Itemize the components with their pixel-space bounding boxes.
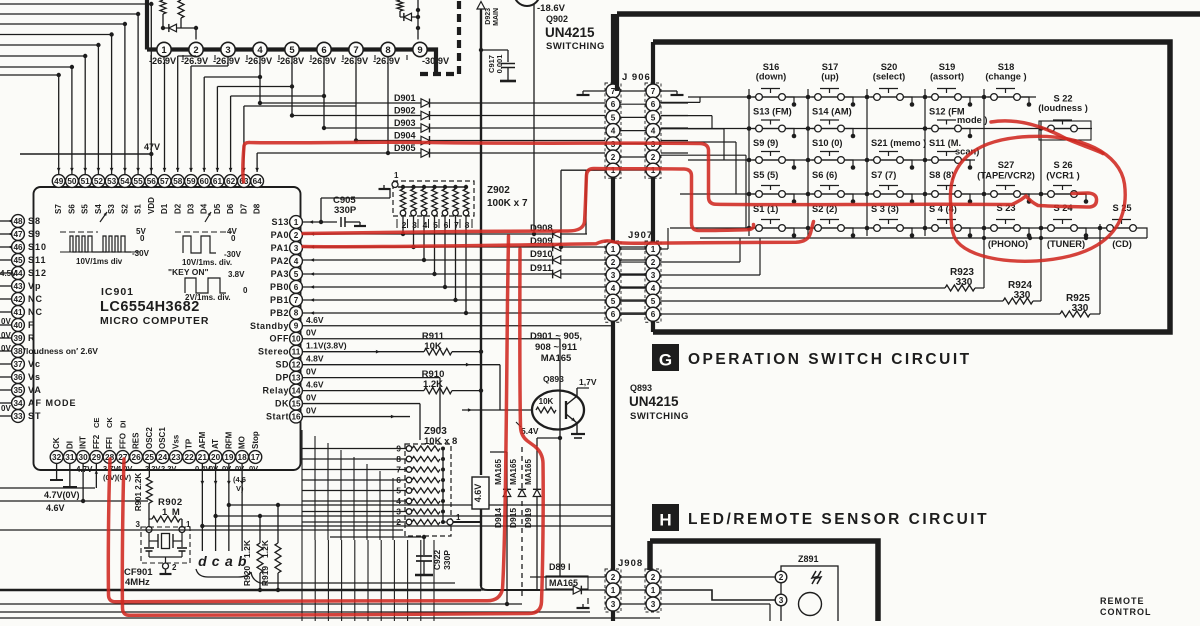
svg-text:S12: S12 — [28, 268, 47, 278]
svg-text:V): V) — [236, 484, 244, 493]
svg-text:6: 6 — [321, 45, 326, 56]
svg-text:MO: MO — [238, 436, 247, 449]
svg-text:1: 1 — [651, 245, 656, 254]
svg-text:36: 36 — [13, 373, 23, 382]
svg-text:D910: D910 — [530, 249, 553, 260]
svg-text:SD: SD — [275, 360, 289, 370]
svg-text:(down): (down) — [756, 72, 786, 82]
svg-text:J907: J907 — [628, 230, 653, 241]
svg-text:DP: DP — [275, 373, 289, 383]
svg-text:35: 35 — [13, 386, 23, 395]
svg-text:10V/1ms div: 10V/1ms div — [76, 257, 123, 266]
svg-text:C922: C922 — [432, 550, 442, 571]
svg-text:FFI: FFI — [105, 437, 114, 449]
svg-text:3: 3 — [651, 600, 656, 609]
svg-text:J 906: J 906 — [622, 72, 651, 83]
svg-text:6: 6 — [651, 100, 656, 109]
svg-text:19: 19 — [224, 453, 234, 462]
svg-text:9: 9 — [396, 444, 401, 454]
svg-text:-26.9V: -26.9V — [373, 56, 401, 66]
svg-text:S9: S9 — [28, 229, 41, 239]
svg-text:(TUNER): (TUNER) — [1047, 239, 1085, 249]
svg-text:10V/1ms. div.: 10V/1ms. div. — [182, 258, 232, 267]
svg-text:S5: S5 — [81, 204, 90, 214]
svg-text:5: 5 — [396, 486, 401, 496]
svg-text:0: 0 — [231, 234, 236, 243]
svg-text:10K x 8: 10K x 8 — [424, 436, 457, 447]
svg-text:-26.9V: -26.9V — [181, 56, 209, 66]
svg-text:1: 1 — [611, 245, 616, 254]
svg-text:-26.8V: -26.8V — [277, 56, 305, 66]
svg-text:D911: D911 — [530, 263, 553, 274]
svg-text:VDD: VDD — [147, 197, 156, 214]
svg-text:(TAPE/VCR2): (TAPE/VCR2) — [977, 171, 1035, 181]
svg-text:54: 54 — [120, 177, 130, 186]
svg-text:CONTROL: CONTROL — [1100, 607, 1152, 617]
svg-text:-26.9V: -26.9V — [341, 56, 369, 66]
svg-text:330: 330 — [1014, 290, 1031, 301]
svg-text:(VCR1 ): (VCR1 ) — [1046, 171, 1080, 181]
svg-text:0V: 0V — [249, 464, 258, 473]
svg-text:S1: S1 — [134, 204, 143, 214]
svg-text:Vp: Vp — [28, 281, 42, 291]
svg-text:2: 2 — [611, 153, 616, 162]
svg-text:17: 17 — [251, 453, 261, 462]
svg-text:0: 0 — [140, 234, 145, 243]
svg-text:4.6V: 4.6V — [473, 484, 483, 503]
svg-text:2.2V: 2.2V — [161, 464, 176, 473]
svg-text:1.2K: 1.2K — [260, 539, 270, 558]
svg-text:8: 8 — [396, 454, 401, 464]
svg-text:(up): (up) — [821, 72, 839, 82]
svg-text:OPERATION SWITCH CIRCUIT: OPERATION SWITCH CIRCUIT — [688, 351, 972, 368]
svg-text:S19: S19 — [939, 62, 956, 72]
svg-text:1: 1 — [394, 171, 399, 180]
svg-text:Standby: Standby — [250, 321, 289, 331]
svg-text:0: 0 — [243, 286, 248, 295]
svg-text:26: 26 — [132, 453, 142, 462]
svg-text:Z891: Z891 — [798, 554, 819, 564]
svg-text:(CD): (CD) — [1112, 239, 1132, 249]
svg-text:S27: S27 — [998, 160, 1015, 170]
svg-text:Vc: Vc — [28, 359, 41, 369]
svg-text:2: 2 — [172, 563, 177, 572]
svg-text:(select): (select) — [873, 72, 906, 82]
svg-text:42: 42 — [13, 295, 23, 304]
svg-text:S8: S8 — [28, 216, 41, 226]
svg-text:15: 15 — [291, 400, 301, 409]
svg-text:1: 1 — [611, 586, 616, 595]
svg-text:2.2V: 2.2V — [145, 464, 160, 473]
svg-text:S7 (7): S7 (7) — [871, 170, 896, 180]
svg-text:REMOTE: REMOTE — [1100, 596, 1145, 606]
svg-text:53: 53 — [107, 177, 117, 186]
svg-text:0V: 0V — [1, 317, 11, 326]
svg-text:52: 52 — [94, 177, 104, 186]
svg-text:S16: S16 — [763, 62, 780, 72]
svg-text:6: 6 — [651, 310, 656, 319]
svg-text:Vss: Vss — [171, 434, 180, 449]
svg-text:0V: 0V — [1, 344, 11, 353]
svg-text:S20: S20 — [881, 62, 898, 72]
svg-text:7: 7 — [294, 296, 299, 305]
svg-text:5: 5 — [289, 45, 295, 56]
svg-text:-26.9V: -26.9V — [213, 56, 241, 66]
svg-text:6: 6 — [611, 310, 616, 319]
svg-text:1 M: 1 M — [162, 507, 181, 518]
svg-text:D904: D904 — [394, 131, 416, 141]
svg-text:16: 16 — [291, 413, 301, 422]
svg-text:-18.6V: -18.6V — [537, 3, 566, 14]
svg-text:Q893: Q893 — [543, 374, 564, 384]
svg-text:0V: 0V — [209, 464, 218, 473]
svg-text:7: 7 — [651, 87, 656, 96]
svg-text:0V: 0V — [1, 404, 11, 413]
svg-text:Stop: Stop — [251, 431, 260, 449]
svg-text:13: 13 — [291, 374, 301, 383]
svg-text:G: G — [659, 351, 672, 370]
svg-text:S4: S4 — [94, 204, 103, 214]
svg-text:330: 330 — [1072, 303, 1089, 314]
svg-text:-30.9V: -30.9V — [422, 56, 450, 66]
svg-text:0.001: 0.001 — [495, 55, 504, 74]
svg-text:LC6554H3682: LC6554H3682 — [100, 299, 200, 315]
svg-text:(assort): (assort) — [930, 72, 964, 82]
svg-text:'loudness on′ 2.6V: 'loudness on′ 2.6V — [24, 346, 98, 356]
svg-text:18: 18 — [238, 453, 248, 462]
svg-text:D1: D1 — [160, 203, 169, 214]
svg-text:3: 3 — [136, 520, 141, 529]
svg-text:S 26: S 26 — [1053, 160, 1072, 170]
svg-text:RES: RES — [132, 432, 141, 449]
svg-text:S14 (AM): S14 (AM) — [812, 107, 852, 117]
svg-text:H: H — [659, 511, 671, 530]
svg-text:4.7V(0V): 4.7V(0V) — [44, 490, 80, 500]
svg-text:330: 330 — [956, 277, 973, 288]
svg-text:Q893: Q893 — [630, 383, 652, 393]
svg-text:RFM: RFM — [224, 431, 233, 449]
svg-text:4.6V: 4.6V — [306, 380, 324, 390]
svg-text:4.7V: 4.7V — [76, 465, 93, 474]
svg-text:D89 I: D89 I — [549, 562, 571, 572]
svg-text:43: 43 — [13, 282, 23, 291]
svg-text:S17: S17 — [822, 62, 839, 72]
svg-text:S5 (5): S5 (5) — [753, 170, 778, 180]
svg-text:51: 51 — [81, 177, 91, 186]
svg-text:4.6V: 4.6V — [46, 503, 65, 513]
svg-text:D901 ~ 905,: D901 ~ 905, — [530, 331, 582, 342]
svg-text:AT: AT — [211, 439, 220, 449]
svg-text:PA3: PA3 — [271, 269, 289, 279]
svg-text:62: 62 — [226, 177, 236, 186]
svg-text:0V: 0V — [235, 464, 244, 473]
svg-text:9: 9 — [294, 322, 299, 331]
svg-text:1: 1 — [161, 45, 167, 56]
svg-text:1.1V(3.8V): 1.1V(3.8V) — [306, 341, 347, 351]
svg-text:SWITCHING: SWITCHING — [630, 411, 689, 422]
svg-text:D5: D5 — [213, 203, 222, 214]
svg-text:2: 2 — [294, 231, 299, 240]
svg-text:40: 40 — [13, 321, 23, 330]
svg-text:D919: D919 — [523, 508, 533, 529]
svg-text:24: 24 — [158, 453, 168, 462]
svg-text:14: 14 — [291, 387, 301, 396]
svg-text:-26.9V: -26.9V — [309, 56, 337, 66]
svg-text:Stereo: Stereo — [258, 347, 289, 357]
svg-text:OFF: OFF — [270, 334, 290, 344]
svg-text:48: 48 — [13, 217, 23, 226]
svg-text:"KEY ON": "KEY ON" — [168, 267, 209, 277]
svg-text:-30V: -30V — [132, 249, 150, 258]
svg-text:2: 2 — [611, 573, 616, 582]
svg-text:S11: S11 — [28, 255, 47, 265]
svg-text:57: 57 — [160, 177, 170, 186]
svg-text:MAIN: MAIN — [493, 8, 500, 26]
svg-text:58: 58 — [173, 177, 183, 186]
svg-text:MA165: MA165 — [524, 459, 533, 485]
svg-text:2: 2 — [779, 573, 784, 582]
svg-text:33: 33 — [13, 412, 23, 421]
svg-text:34: 34 — [13, 399, 23, 408]
svg-text:0V: 0V — [222, 464, 231, 473]
svg-text:MA165: MA165 — [541, 353, 572, 364]
svg-text:908 ~ 911: 908 ~ 911 — [535, 342, 578, 353]
svg-text:D901: D901 — [394, 93, 416, 103]
svg-text:-26.9V: -26.9V — [149, 56, 177, 66]
svg-text:D905: D905 — [394, 143, 416, 153]
svg-text:56: 56 — [147, 177, 157, 186]
svg-text:3: 3 — [611, 271, 616, 280]
svg-text:S6 (6): S6 (6) — [812, 170, 837, 180]
svg-text:(PHONO): (PHONO) — [988, 239, 1028, 249]
svg-text:S10: S10 — [28, 242, 47, 252]
svg-text:S6: S6 — [67, 204, 76, 214]
svg-text:61: 61 — [213, 177, 223, 186]
svg-text:6: 6 — [294, 283, 299, 292]
svg-text:S8 (8): S8 (8) — [929, 170, 954, 180]
svg-text:23: 23 — [171, 453, 181, 462]
svg-text:NC: NC — [28, 294, 43, 304]
svg-text:7: 7 — [396, 465, 401, 475]
svg-text:PB1: PB1 — [270, 295, 289, 305]
svg-text:0V: 0V — [306, 406, 317, 416]
svg-text:D7: D7 — [239, 203, 248, 214]
svg-text:OSC1: OSC1 — [158, 427, 167, 449]
svg-text:4: 4 — [611, 284, 616, 293]
svg-text:J908: J908 — [618, 558, 643, 569]
svg-text:47V: 47V — [144, 142, 160, 152]
svg-text:S18: S18 — [998, 62, 1015, 72]
svg-text:11: 11 — [292, 348, 301, 357]
svg-text:0V: 0V — [1, 331, 11, 340]
svg-text:3: 3 — [225, 45, 230, 56]
svg-text:D923: D923 — [485, 8, 492, 25]
svg-text:D915: D915 — [508, 508, 518, 529]
svg-text:AFM: AFM — [198, 431, 207, 449]
svg-text:3: 3 — [651, 271, 656, 280]
svg-text:330P: 330P — [442, 550, 452, 570]
svg-text:2: 2 — [651, 153, 656, 162]
svg-text:8: 8 — [385, 45, 390, 56]
svg-text:4.6V: 4.6V — [306, 315, 324, 325]
svg-text:45: 45 — [13, 256, 23, 265]
svg-text:R920: R920 — [242, 566, 252, 587]
svg-text:37: 37 — [13, 360, 23, 369]
svg-text:FF2: FF2 — [92, 434, 101, 449]
svg-text:MICRO COMPUTER: MICRO COMPUTER — [100, 315, 209, 327]
svg-text:S 22: S 22 — [1053, 94, 1072, 104]
svg-text:INT: INT — [79, 436, 88, 449]
svg-text:DI: DI — [65, 441, 74, 449]
svg-text:UN4215: UN4215 — [629, 394, 679, 409]
svg-text:60: 60 — [200, 177, 210, 186]
svg-text:S21 (memo ): S21 (memo ) — [871, 138, 926, 148]
svg-text:D914: D914 — [493, 508, 503, 529]
svg-text:8: 8 — [294, 309, 299, 318]
svg-text:0V: 0V — [306, 328, 317, 338]
svg-text:c: c — [212, 553, 220, 569]
svg-text:12: 12 — [291, 361, 301, 370]
svg-text:1.2K: 1.2K — [423, 379, 443, 390]
svg-text:S3: S3 — [107, 204, 116, 214]
svg-text:0V: 0V — [306, 367, 317, 377]
svg-text:CE: CE — [92, 418, 101, 428]
svg-text:3: 3 — [779, 596, 784, 605]
svg-text:29: 29 — [92, 453, 102, 462]
svg-text:330P: 330P — [334, 205, 357, 216]
svg-text:22: 22 — [185, 453, 195, 462]
svg-text:NC: NC — [28, 307, 43, 317]
svg-text:2: 2 — [396, 517, 401, 527]
svg-text:F: F — [28, 320, 35, 330]
svg-text:DK: DK — [275, 399, 289, 409]
svg-text:2: 2 — [611, 258, 616, 267]
svg-text:4.8V: 4.8V — [306, 354, 324, 364]
svg-text:TP: TP — [185, 438, 194, 449]
svg-text:30: 30 — [79, 453, 89, 462]
svg-text:LED/REMOTE SENSOR CIRCUIT: LED/REMOTE SENSOR CIRCUIT — [688, 511, 989, 528]
svg-text:9: 9 — [417, 45, 422, 56]
svg-text:S13: S13 — [271, 217, 289, 227]
svg-text:UN4215: UN4215 — [545, 25, 595, 40]
svg-text:R901 2.2K: R901 2.2K — [134, 473, 143, 511]
svg-text:-26.9V: -26.9V — [245, 56, 273, 66]
svg-text:59: 59 — [186, 177, 196, 186]
svg-text:2: 2 — [193, 45, 198, 56]
svg-text:3.8V: 3.8V — [228, 270, 245, 279]
svg-text:1: 1 — [651, 586, 656, 595]
svg-text:5: 5 — [611, 113, 616, 122]
svg-text:S10 (0): S10 (0) — [812, 138, 843, 148]
svg-text:3: 3 — [294, 244, 299, 253]
svg-text:64: 64 — [253, 177, 263, 186]
svg-text:CK: CK — [105, 417, 114, 428]
svg-text:PA1: PA1 — [271, 243, 289, 253]
svg-text:MA165: MA165 — [509, 459, 518, 485]
svg-text:Start: Start — [266, 412, 289, 422]
svg-text:Z902: Z902 — [487, 185, 510, 196]
svg-text:SWITCHING: SWITCHING — [546, 41, 605, 52]
svg-text:R919: R919 — [260, 566, 270, 587]
svg-text:PA0: PA0 — [271, 230, 289, 240]
svg-text:5: 5 — [651, 297, 656, 306]
svg-text:(4.6: (4.6 — [233, 475, 246, 484]
svg-text:Q902: Q902 — [546, 14, 568, 24]
svg-text:D903: D903 — [394, 118, 416, 128]
svg-text:4MHz: 4MHz — [125, 577, 150, 588]
svg-text:41: 41 — [13, 308, 23, 317]
svg-text:D902: D902 — [394, 106, 416, 116]
svg-text:(loudness ): (loudness ) — [1038, 103, 1088, 113]
svg-text:Vs: Vs — [28, 372, 41, 382]
svg-text:Relay: Relay — [262, 386, 289, 396]
svg-text:4: 4 — [396, 496, 401, 506]
svg-text:47: 47 — [13, 230, 23, 239]
svg-text:31: 31 — [65, 453, 75, 462]
svg-text:4: 4 — [257, 45, 263, 56]
svg-text:4: 4 — [651, 127, 656, 136]
svg-text:DI: DI — [118, 421, 127, 429]
svg-text:CK: CK — [52, 437, 61, 449]
svg-text:55: 55 — [134, 177, 144, 186]
svg-text:5: 5 — [294, 270, 299, 279]
svg-text:S13 (FM): S13 (FM) — [753, 107, 792, 117]
svg-text:5: 5 — [611, 297, 616, 306]
svg-text:49: 49 — [54, 177, 64, 186]
svg-text:5: 5 — [651, 113, 656, 122]
svg-text:4: 4 — [611, 127, 616, 136]
svg-text:3: 3 — [611, 600, 616, 609]
svg-text:R: R — [28, 333, 36, 343]
svg-text:MA165: MA165 — [494, 459, 503, 485]
svg-text:38: 38 — [13, 347, 23, 356]
svg-text:10: 10 — [291, 335, 301, 344]
svg-text:D6: D6 — [226, 203, 235, 214]
svg-text:1: 1 — [294, 218, 299, 227]
svg-text:D4: D4 — [200, 203, 209, 214]
svg-text:10K: 10K — [424, 341, 442, 352]
svg-text:D2: D2 — [173, 203, 182, 214]
svg-text:6: 6 — [611, 100, 616, 109]
svg-text:10K: 10K — [539, 397, 554, 406]
svg-text:d: d — [198, 553, 207, 569]
svg-text:IC901: IC901 — [101, 286, 134, 298]
svg-text:6: 6 — [396, 475, 401, 485]
svg-text:0V: 0V — [306, 393, 317, 403]
svg-text:3: 3 — [396, 507, 401, 517]
svg-text:2: 2 — [651, 258, 656, 267]
svg-text:VA: VA — [28, 385, 42, 395]
svg-text:S2: S2 — [120, 204, 129, 214]
svg-text:D8: D8 — [253, 203, 262, 214]
svg-text:OSC2: OSC2 — [145, 427, 154, 449]
svg-text:4: 4 — [651, 284, 656, 293]
svg-text:25: 25 — [145, 453, 155, 462]
svg-text:ST: ST — [28, 411, 42, 421]
svg-text:21: 21 — [198, 453, 208, 462]
svg-text:PB2: PB2 — [270, 308, 289, 318]
svg-text:1,7V: 1,7V — [579, 377, 597, 387]
svg-text:AF MODE: AF MODE — [28, 398, 77, 408]
svg-text:2: 2 — [651, 573, 656, 582]
svg-text:(change ): (change ) — [985, 72, 1026, 82]
svg-text:FFO: FFO — [118, 433, 127, 449]
svg-text:4: 4 — [294, 257, 299, 266]
svg-text:D3: D3 — [187, 203, 196, 214]
svg-text:39: 39 — [13, 334, 23, 343]
svg-text:100K x 7: 100K x 7 — [487, 198, 528, 209]
svg-text:1.2K: 1.2K — [242, 539, 252, 558]
